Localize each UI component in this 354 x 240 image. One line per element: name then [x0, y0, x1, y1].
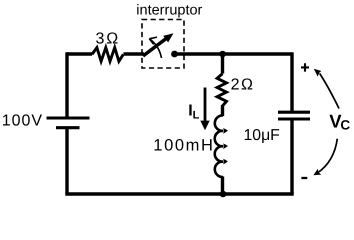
svg-text:3Ω: 3Ω	[96, 30, 121, 47]
svg-text:L: L	[193, 110, 200, 122]
svg-text:C: C	[340, 118, 350, 133]
svg-text:100mH: 100mH	[153, 136, 214, 154]
svg-text:2Ω: 2Ω	[231, 77, 255, 94]
svg-text:10μF: 10μF	[244, 127, 281, 144]
svg-text:100V: 100V	[2, 113, 43, 130]
svg-text:interruptor: interruptor	[136, 3, 202, 19]
